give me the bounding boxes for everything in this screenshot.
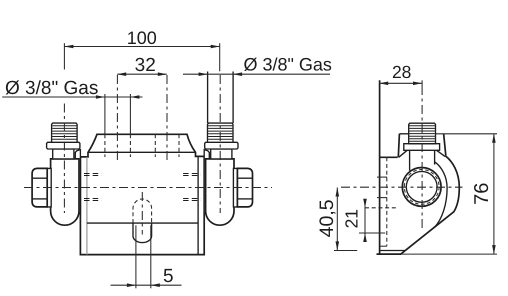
threaded stud block [52, 123, 78, 142]
side body left edge (also 28 extension line) [379, 80, 381, 254]
body inner left wall line (faint) [86, 157, 88, 255]
hidden side port thread lines left [84, 174, 102, 201]
elbow cylinder with round bottom [51, 159, 79, 225]
svg-text:Ø 3/8" Gas: Ø 3/8" Gas [244, 54, 332, 74]
side hidden front-wall line [386, 157, 388, 246]
side bottom edge [377, 253, 402, 255]
dimension 100 [64, 46, 219, 48]
bottom slot hidden outline [133, 199, 152, 223]
side bottom upper line [381, 250, 406, 252]
right elbow vertical centerline [219, 75, 221, 213]
side stud flange [404, 144, 440, 151]
elbow neck [53, 149, 74, 159]
right stud plain pipe section [207, 72, 209, 124]
bottom extension line for 76 [401, 253, 497, 255]
side stud vertical centerline [421, 86, 423, 231]
hidden port edge ticks [377, 176, 387, 178]
thread lines [52, 126, 76, 140]
slot edge extension lines [135, 225, 137, 288]
hole 1 extension lines [104, 94, 106, 134]
body horizontal edge line [87, 222, 198, 224]
svg-text:32: 32 [135, 55, 156, 76]
svg-text:40,5: 40,5 [316, 199, 338, 237]
dimension 5 (slot) [111, 284, 182, 286]
svg-text:76: 76 [471, 183, 493, 205]
hidden side port thread lines right [183, 174, 201, 201]
nut face lines [32, 177, 47, 179]
boss arc around port [434, 162, 447, 228]
hole 1 centerline [116, 75, 118, 161]
bottom slot visible U [133, 223, 152, 243]
side body top edge [380, 156, 398, 158]
main horizontal centerline [24, 187, 272, 189]
svg-text:100: 100 [127, 28, 157, 48]
rim wall top left [399, 133, 410, 135]
right chamfer under flange [437, 150, 446, 156]
left elbow vertical centerline [63, 104, 65, 214]
dimension 28 [379, 82, 422, 84]
body top edge line [88, 151, 196, 153]
dimension 76 [493, 134, 495, 254]
hex nut (side view) [32, 168, 47, 207]
dimension 40,5 [336, 188, 338, 251]
side threaded stud [409, 123, 436, 144]
dimension 32 [117, 73, 167, 75]
side neck [409, 150, 411, 170]
slot centerline [141, 192, 143, 235]
hidden threaded hole 2 in body top [154, 134, 156, 157]
label Ø 3/8" Gas (right, stud) [183, 73, 330, 75]
right elbow fitting (mirrored copy) [204, 123, 252, 225]
dimension 21 [364, 199, 366, 241]
valve body outline with trapezoid top [80, 134, 204, 254]
port thread circle (dashed) [404, 170, 439, 205]
body inner right wall line [197, 156, 199, 254]
left elbow fitting [32, 123, 80, 225]
right rim wall [444, 134, 446, 156]
hole 2 centerline [166, 75, 168, 161]
left rim wall [398, 134, 399, 158]
port outer circle [402, 168, 441, 207]
left chamfer under flange [399, 150, 408, 157]
mating flange plate at body [75, 150, 80, 214]
outer body arc and diagonal cut [401, 156, 460, 254]
svg-text:21: 21 [341, 209, 361, 228]
hidden threaded hole 1 in body top [104, 134, 106, 157]
top extension line for 76 [436, 133, 497, 135]
nut washer [47, 168, 51, 207]
port inner circle [406, 172, 437, 203]
label Ø 3/8" Gas (left, top hole) [2, 96, 142, 98]
stud flange [47, 142, 80, 149]
side port horizontal centerline [341, 186, 463, 188]
svg-text:5: 5 [163, 266, 174, 287]
svg-text:28: 28 [392, 62, 411, 82]
hidden line bottom tick [381, 245, 387, 247]
svg-text:Ø 3/8" Gas: Ø 3/8" Gas [5, 78, 98, 99]
